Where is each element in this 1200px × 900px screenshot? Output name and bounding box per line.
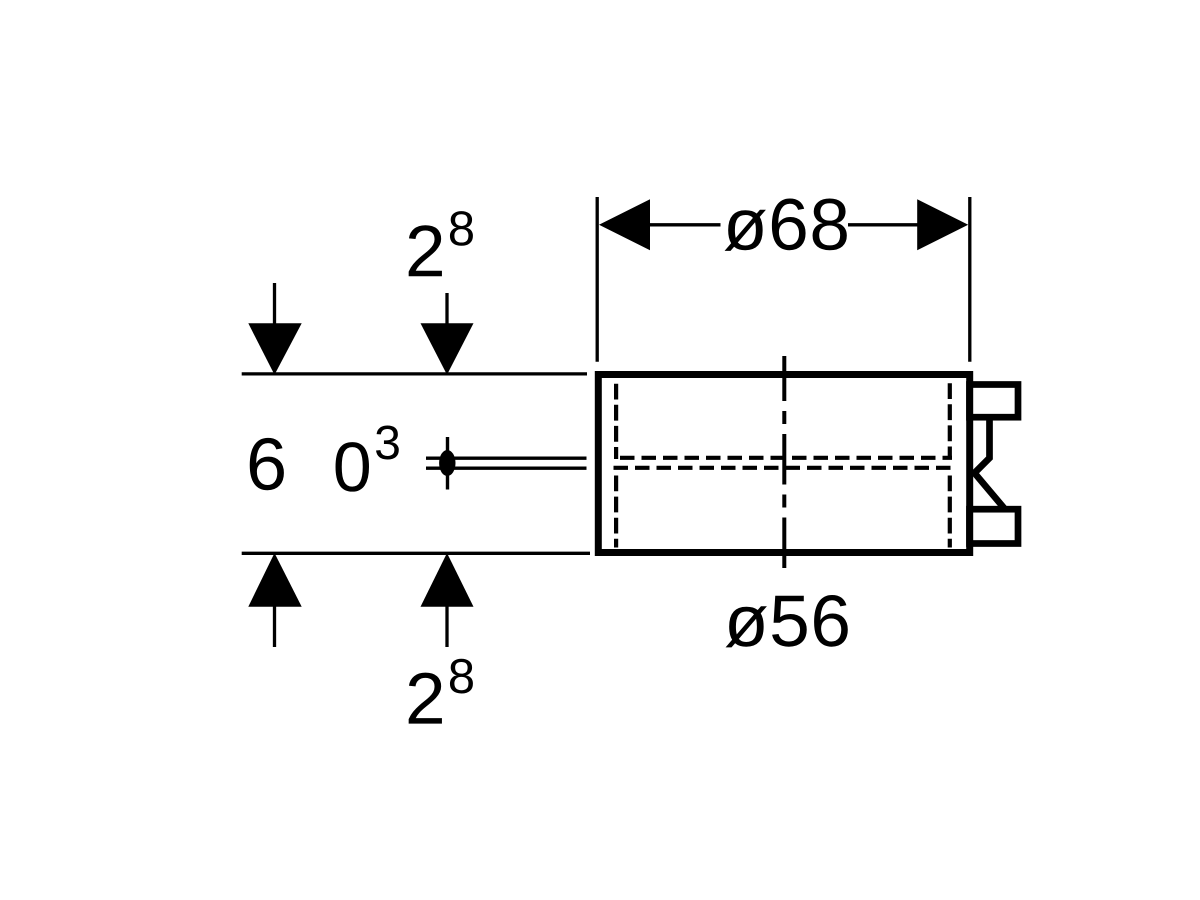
- label 6: [250, 438, 284, 490]
- dimension arrowhead right: [917, 199, 968, 250]
- down arrow left stem: [273, 283, 276, 327]
- down arrow mid head: [421, 323, 474, 375]
- label 8 sup bottom: [450, 659, 473, 694]
- label 2 top: [409, 225, 442, 276]
- label dia 68: [725, 199, 847, 251]
- extension line right: [968, 197, 971, 362]
- fixing point vertical line: [446, 437, 449, 490]
- dimension arrowhead left: [599, 199, 650, 250]
- hidden edge right upper: [948, 383, 952, 459]
- up arrow left head: [248, 553, 301, 607]
- bottom wall line: [242, 552, 590, 555]
- hidden edge right lower: [948, 476, 952, 548]
- center line: [782, 356, 786, 568]
- down arrow left head: [248, 323, 301, 375]
- label 8 sup top: [450, 211, 473, 246]
- top wall line: [242, 372, 587, 375]
- down arrow mid stem: [445, 293, 448, 327]
- dimension line right segment: [848, 223, 918, 226]
- up arrow mid stem: [445, 603, 448, 647]
- label 0: [336, 442, 369, 492]
- dimension line left segment: [650, 223, 721, 226]
- up arrow mid head: [421, 553, 474, 607]
- label 3 sup: [376, 425, 399, 459]
- axis double line upper: [426, 457, 587, 460]
- fixing point dot: [439, 450, 455, 476]
- clip spring arm: [975, 421, 1005, 509]
- hidden edge left lower: [614, 476, 618, 548]
- label 2 bottom: [409, 673, 442, 724]
- clip bottom tab: [970, 509, 1019, 543]
- sleeve body outline: [598, 375, 969, 553]
- hidden edge left upper: [614, 384, 618, 459]
- hidden bore line upper: [620, 456, 952, 460]
- up arrow left stem: [273, 603, 276, 647]
- label dia 56: [726, 595, 848, 647]
- axis double line lower: [426, 467, 587, 470]
- extension line left: [596, 197, 599, 362]
- hidden bore line lower: [614, 466, 953, 470]
- clip top tab: [970, 385, 1019, 418]
